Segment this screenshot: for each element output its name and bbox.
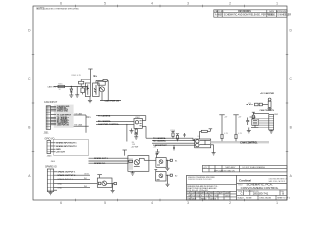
svg-text:GND: GND	[57, 187, 62, 189]
capacitor C304	[246, 118, 249, 126]
svg-text:DO NOT SCALE DRAWING: DO NOT SCALE DRAWING	[243, 166, 266, 169]
label panel	[54, 105, 74, 128]
svg-text:CAM CONTROL: CAM CONTROL	[240, 141, 258, 144]
module box	[128, 156, 149, 172]
wire CAM PWR CONTROL	[96, 123, 134, 125]
wire RX CAMERA 2	[152, 138, 195, 140]
notes text	[37, 8, 80, 10]
svg-text:2: 2	[229, 2, 231, 6]
label frame	[54, 140, 89, 155]
ground	[166, 168, 170, 170]
transistor Q304	[134, 158, 144, 166]
svg-text:S.G: S.G	[206, 195, 210, 197]
resistor R306	[171, 131, 174, 138]
power +5V rail 2	[233, 115, 238, 135]
power +5V	[154, 170, 157, 172]
transistor Q305	[102, 181, 107, 186]
ground	[75, 95, 79, 97]
resistor R314	[252, 115, 254, 119]
wire	[247, 104, 253, 106]
svg-text:1: 1	[276, 2, 278, 6]
svg-text:USED ON: USED ON	[226, 170, 235, 172]
power +5V	[123, 150, 127, 156]
IC U303	[250, 117, 259, 128]
svg-text:B2: B2	[175, 175, 177, 177]
wire CAM ON OUT	[100, 92, 121, 101]
svg-text:3: 3	[187, 2, 189, 6]
wire SPARE OUT 1	[89, 157, 129, 159]
svg-text:CAM INPUT: CAM INPUT	[44, 101, 58, 104]
svg-text:PROD: PROD	[201, 198, 207, 200]
wire TX CAMERA	[96, 115, 146, 117]
J301 pin labels	[57, 105, 72, 126]
svg-text:SHIELD GND: SHIELD GND	[57, 111, 69, 113]
svg-text:+5V CAM PWR: +5V CAM PWR	[260, 92, 275, 95]
svg-text:SCHEMATIC AND BOM RELEASE, PER: SCHEMATIC AND BOM RELEASE, PER PROD	[224, 14, 274, 17]
revision block	[214, 10, 287, 17]
svg-text:SCALE: SCALE	[238, 197, 245, 200]
resistor R305	[135, 128, 137, 133]
svg-text:SPARE OUT 1: SPARE OUT 1	[94, 157, 109, 160]
svg-text:9/01: 9/01	[215, 195, 219, 197]
svg-text:CONV/CAMERA CONTROL: CONV/CAMERA CONTROL	[241, 186, 279, 190]
wire CAM CONTROL gray band	[211, 141, 269, 143]
capacitor C302	[184, 133, 186, 137]
ground	[130, 128, 134, 133]
ground	[212, 153, 216, 155]
svg-text:SPARE OUTPUT 2: SPARE OUTPUT 2	[57, 174, 76, 177]
ground	[88, 97, 92, 103]
ribbon wires	[258, 119, 269, 128]
wire	[155, 144, 195, 146]
svg-text:3: 3	[187, 201, 189, 205]
resistor R302 (vertical to rail)	[77, 79, 90, 94]
svg-text:10/9/01: 10/9/01	[268, 15, 276, 17]
resistor R312	[98, 182, 101, 185]
svg-text:DATE: DATE	[225, 191, 231, 194]
diode CR303	[170, 174, 172, 176]
svg-text:B+: B+	[94, 74, 98, 78]
resistor R311	[129, 160, 133, 162]
diode CR302	[170, 159, 172, 161]
svg-text:B: B	[282, 192, 284, 196]
J301 pin wires	[51, 106, 56, 124]
svg-text:TX CAM INPUT: TX CAM INPUT	[57, 113, 72, 116]
svg-text:B1: B1	[175, 160, 177, 162]
wire	[107, 184, 114, 191]
fuse F301	[255, 103, 267, 106]
svg-text:RX CAMERA: RX CAMERA	[153, 140, 166, 143]
svg-text:R303 4.7K: R303 4.7K	[72, 75, 82, 77]
svg-text:J303: J303	[47, 156, 53, 158]
svg-text:10/01: 10/01	[225, 195, 230, 197]
ground	[269, 130, 273, 133]
label panel	[129, 158, 133, 170]
zone labels	[28, 2, 292, 206]
wire SPARE OUT 2	[89, 160, 129, 162]
svg-text:DATE: DATE	[269, 10, 275, 13]
svg-text:NEXT ASSY: NEXT ASSY	[226, 166, 237, 169]
svg-text:6: 6	[60, 2, 62, 6]
resistor R309	[221, 134, 223, 141]
ground	[134, 137, 138, 139]
junction	[173, 138, 174, 139]
ground	[111, 190, 115, 192]
connector J303	[47, 141, 51, 154]
svg-text:RX CAM: RX CAM	[74, 124, 82, 127]
diode CR304	[114, 182, 117, 184]
connector J301	[46, 106, 50, 130]
svg-text:6: 6	[60, 201, 62, 205]
svg-text:+5V SW: +5V SW	[131, 146, 139, 148]
svg-text:NONE: NONE	[246, 198, 252, 200]
svg-text:J.M: J.M	[188, 195, 191, 197]
svg-text:SPARE OUTPUT 1: SPARE OUTPUT 1	[57, 171, 76, 174]
transistor Q300	[81, 87, 85, 95]
resistor R301	[58, 85, 65, 87]
svg-text:APPROVED: APPROVED	[276, 10, 287, 13]
svg-text:GND: GND	[57, 183, 62, 185]
pin wires	[54, 172, 98, 190]
svg-text:REL: REL	[188, 198, 192, 200]
wire RX to bus	[74, 125, 86, 127]
wire	[166, 175, 170, 184]
svg-text:IN1: IN1	[84, 178, 87, 180]
svg-text:J302: J302	[274, 114, 278, 116]
svg-text:5: 5	[104, 2, 106, 6]
svg-text:TX CAMERA: TX CAMERA	[98, 114, 111, 117]
power +5V	[97, 175, 102, 178]
ground	[156, 149, 160, 154]
svg-text:4: 4	[151, 201, 153, 205]
ground	[69, 95, 73, 97]
connector J304	[47, 169, 53, 192]
svg-text:F1: F1	[249, 103, 251, 105]
application block	[202, 165, 287, 172]
svg-text:4809: 4809	[192, 198, 196, 200]
svg-text:UNLESS OTHERWISE SPECIFIED: UNLESS OTHERWISE SPECIFIED	[45, 8, 79, 10]
svg-text:C: C	[241, 192, 243, 196]
junction	[126, 124, 127, 125]
diode CR301	[70, 86, 73, 95]
wire	[211, 145, 214, 153]
wire	[54, 86, 88, 88]
svg-text:SPARE INPUT/OUT 1: SPARE INPUT/OUT 1	[56, 142, 77, 145]
driver U305	[156, 172, 166, 182]
wire	[152, 142, 195, 144]
title block	[187, 175, 288, 200]
driver U304	[156, 158, 166, 168]
ground	[268, 108, 272, 111]
transistor Q301	[98, 81, 105, 92]
svg-text:SPARE INPUT 1: SPARE INPUT 1	[57, 178, 73, 181]
wire	[152, 140, 195, 142]
power B+ rail	[88, 69, 92, 83]
power +5V	[252, 112, 255, 115]
svg-text:TX CAMERA: TX CAMERA	[153, 137, 166, 140]
wire SPARE IN	[89, 162, 129, 164]
ground	[131, 171, 135, 175]
wire TX to bus	[74, 115, 89, 133]
wire	[126, 124, 128, 141]
svg-text:K.L: K.L	[201, 195, 204, 197]
svg-text:TX CAM: TX CAM	[74, 112, 82, 115]
pin labels	[56, 142, 77, 154]
svg-text:CAM ON: CAM ON	[47, 86, 56, 89]
svg-text:REVISIONS: REVISIONS	[238, 11, 251, 13]
svg-text:IN3: IN3	[84, 186, 87, 188]
power +5V	[155, 154, 158, 158]
jack J305	[266, 98, 271, 107]
optocoupler U301	[85, 83, 99, 97]
svg-text:OUT2: OUT2	[84, 174, 89, 176]
svg-text:APPLICATION: APPLICATION	[214, 169, 226, 172]
svg-text:+5V OUT: +5V OUT	[56, 152, 65, 154]
svg-text:2: 2	[229, 201, 231, 205]
svg-text:5: 5	[104, 201, 106, 205]
svg-text:ECO NO: ECO NO	[216, 11, 224, 13]
svg-text:R306: R306	[171, 130, 176, 132]
ground	[166, 184, 170, 186]
svg-text:10/9/01: 10/9/01	[210, 198, 216, 200]
module box	[97, 178, 112, 187]
svg-text:DIMENSIONS ARE IN INCHES: DIMENSIONS ARE IN INCHES	[188, 178, 212, 181]
capacitor C301	[134, 134, 138, 137]
svg-text:CAM PWR RTN: CAM PWR RTN	[260, 109, 275, 112]
power +5V rail 1	[219, 115, 224, 135]
pin wires	[51, 143, 56, 152]
optocoupler U306	[195, 139, 211, 148]
wire RX CAMERA	[96, 120, 134, 122]
wire	[142, 116, 152, 139]
svg-text:1: 1	[276, 201, 278, 205]
svg-text:SPARE IN 1: SPARE IN 1	[94, 162, 106, 165]
sheet border frame	[33, 6, 287, 200]
wire +5V rail	[253, 113, 269, 115]
resistor R308 pullup	[200, 129, 213, 139]
ground	[49, 192, 53, 195]
svg-text:J301: J301	[44, 132, 50, 134]
svg-text:CAM PWR ON: CAM PWR ON	[57, 123, 70, 126]
zone boundary ticks	[32, 5, 288, 201]
svg-text:DWG 280283: DWG 280283	[260, 198, 271, 200]
resistor R310	[235, 134, 237, 141]
svg-text:T.W: T.W	[192, 195, 195, 197]
svg-text:GPIO I/O: GPIO I/O	[45, 137, 55, 140]
connector J302 out	[269, 115, 274, 130]
wire out	[144, 159, 156, 161]
svg-text:CAM PWR CONTROL: CAM PWR CONTROL	[98, 123, 120, 126]
svg-text:S.WHEELER: S.WHEELER	[277, 15, 291, 17]
wire	[166, 160, 170, 168]
svg-text:4809: 4809	[217, 15, 223, 17]
ground	[247, 128, 251, 133]
svg-text:REL: REL	[210, 192, 214, 194]
svg-text:R301: R301	[58, 84, 62, 86]
svg-text:280283-741: 280283-741	[253, 192, 269, 196]
wire end labels	[84, 174, 89, 188]
capacitor C303	[173, 145, 175, 150]
resistor R304 feedback	[96, 79, 108, 100]
svg-text:SPARE INPUT/OUT 2: SPARE INPUT/OUT 2	[56, 145, 77, 148]
svg-text:4: 4	[151, 2, 153, 6]
svg-text:RX CAMERA: RX CAMERA	[98, 120, 111, 123]
pin labels	[57, 171, 76, 190]
svg-text:SHEET 1 OF 1: SHEET 1 OF 1	[277, 198, 290, 200]
svg-text:CAM PWR ON: CAM PWR ON	[105, 99, 120, 102]
svg-text:SPARE I/O: SPARE I/O	[45, 165, 57, 168]
resistor R307	[176, 134, 179, 141]
